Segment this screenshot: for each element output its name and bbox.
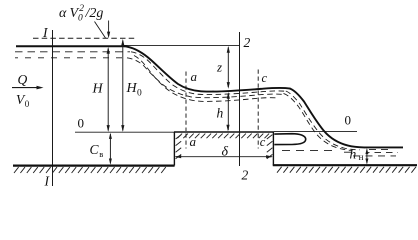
svg-text:c: c (260, 135, 266, 149)
shading dash left of label h_n (344, 151, 352, 153)
hatching under downstream bed (277, 167, 416, 173)
upstream free water surface (16, 45, 125, 47)
svg-text:a: a (191, 69, 198, 84)
dashed section line c (inside sill) (257, 134, 259, 149)
svg-text:α: α (59, 6, 67, 21)
channel bed upstream of sill (13, 165, 175, 167)
tailwater surface (364, 146, 403, 148)
svg-text:C: C (90, 142, 100, 157)
svg-text:н: н (359, 152, 364, 162)
energy grade line (dashed) (33, 37, 137, 39)
sill downstream face (272, 132, 274, 166)
sill crest line (174, 131, 274, 133)
svg-text:δ: δ (222, 144, 229, 159)
flow arrow Q (12, 87, 41, 89)
upstream water shading dashes row 2 (15, 57, 126, 59)
svg-text:0: 0 (78, 116, 85, 131)
upstream water shading dashes row 1 (15, 51, 130, 53)
dimension H0 (total head) (122, 41, 124, 131)
hatching inside sill upstream face (176, 135, 182, 159)
dashed section line c (above sill) (257, 70, 259, 132)
hatching inside sill downstream face (267, 135, 273, 159)
dashed streamline 2 under drawdown curve (127, 58, 282, 98)
svg-text:h: h (217, 106, 224, 121)
svg-text:H: H (92, 82, 104, 97)
datum line 0 (left of sill) (75, 131, 174, 133)
leader line from velocity-head label (95, 22, 106, 39)
dashed streamline 2 under fall curve (284, 93, 352, 150)
drawdown curve of water surface onto sill (125, 46, 213, 91)
svg-text:0: 0 (137, 88, 142, 98)
svg-text:2: 2 (242, 168, 249, 183)
section line 2-2 (239, 32, 241, 166)
tailwater shading row 3 (353, 155, 396, 157)
tailwater shading dashes behind roller (282, 149, 332, 151)
svg-text:2: 2 (79, 4, 84, 14)
svg-text:c: c (262, 71, 268, 85)
tailwater shading row 1 (369, 148, 392, 150)
surface roller eddy behind sill (274, 134, 305, 145)
dashed section line a (inside sill) (185, 134, 187, 149)
svg-text:0: 0 (345, 113, 352, 128)
dimension h_n (tailwater depth) (366, 149, 368, 163)
velocity head arrow (down to energy line) (108, 21, 110, 37)
channel bed downstream of sill (273, 164, 417, 166)
dimension H (water depth over datum) (107, 49, 109, 131)
svg-text:0: 0 (78, 14, 83, 24)
datum line 0 (right of sill) (274, 130, 357, 132)
dashed streamline 3 under drawdown curve (134, 56, 277, 102)
sill upstream face (173, 132, 175, 166)
hatching under upstream bed (14, 167, 166, 173)
dimension h (depth on sill) (227, 93, 229, 130)
falling water surface downstream of sill (290, 89, 364, 148)
upstream water level reference line extended to section 2 (124, 44, 240, 46)
dashed streamline 1 under drawdown curve (131, 52, 286, 95)
svg-text:0: 0 (25, 99, 30, 109)
dimension delta (sill length) (176, 156, 273, 158)
tailwater shading row 2 (366, 152, 398, 154)
hatching inside sill crest (178, 134, 270, 139)
svg-text:/2g: /2g (85, 6, 104, 21)
label alpha V0^2 / 2g (59, 4, 103, 24)
dimension z (surface drop) (227, 47, 229, 87)
svg-text:2: 2 (244, 35, 251, 50)
dimension C_v (sill height) (109, 134, 111, 163)
water surface over sill crest (213, 88, 290, 92)
dashed streamline 1 under fall curve (286, 91, 360, 150)
svg-text:в: в (99, 149, 103, 159)
section line I-I (52, 30, 54, 186)
svg-text:h: h (350, 147, 357, 162)
dashed section line a (above sill) (185, 72, 187, 132)
svg-text:a: a (190, 134, 197, 149)
svg-text:H: H (126, 81, 138, 96)
svg-text:z: z (216, 60, 222, 75)
svg-text:Q: Q (18, 72, 28, 87)
